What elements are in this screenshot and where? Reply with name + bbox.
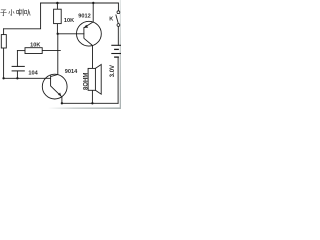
title 子小喇叭 (hand-drawn strokes) bbox=[0, 9, 30, 16]
wire R2 right lead bbox=[42, 50, 60, 52]
transistor Q1 9012 (PNP) bbox=[77, 21, 102, 46]
char 小 bbox=[9, 9, 14, 15]
wire right rail bottom to battery bbox=[117, 57, 119, 103]
transistor Q2 9014 (NPN) bbox=[42, 74, 67, 99]
wire R2 left lead bbox=[17, 50, 25, 52]
wire Q2 emitter down bbox=[61, 97, 63, 103]
resistor R2 bbox=[25, 48, 42, 54]
wire R1 top lead bbox=[3, 29, 5, 35]
wire N1 vertical down to Q2 collector bbox=[57, 34, 59, 75]
svg-text:9012: 9012 bbox=[78, 14, 90, 20]
char 子 bbox=[0, 10, 6, 16]
junction dot base rail left bbox=[2, 77, 4, 79]
resistor R3 bbox=[54, 9, 62, 23]
switch K bbox=[117, 11, 120, 27]
battery B1 3.0V bbox=[111, 45, 121, 57]
junction dot speaker at bottom rail bbox=[91, 102, 93, 104]
svg-text:10K: 10K bbox=[64, 18, 74, 24]
page shadow right edge bbox=[120, 0, 121, 109]
svg-text:10K: 10K bbox=[30, 42, 40, 48]
junction dot Q1 emitter at rail bbox=[92, 2, 94, 4]
wire speaker bottom lead bbox=[91, 90, 93, 103]
wire R1 bottom lead down to base rail bbox=[3, 48, 5, 78]
junction dot Q2 emitter at bottom rail bbox=[61, 102, 63, 104]
svg-text:104: 104 bbox=[28, 71, 38, 77]
junction dot R3 top at rail bbox=[56, 2, 59, 5]
wire R3 top lead bbox=[56, 3, 58, 9]
wire C1 bottom lead bbox=[16, 71, 18, 78]
svg-text:8OHM: 8OHM bbox=[84, 73, 90, 90]
junction dot N1 below R3 bbox=[57, 33, 59, 35]
wire Q1 collector down to speaker bbox=[91, 46, 93, 69]
wire node N1 to Q1 base bbox=[58, 33, 84, 35]
wire Q1 emitter to top rail bbox=[92, 3, 94, 22]
resistor R1 bbox=[1, 35, 6, 48]
speaker LS bbox=[88, 65, 101, 95]
transistor Q1 emitter arrow bbox=[84, 25, 88, 28]
transistor Q2 emitter arrow bbox=[58, 93, 61, 96]
wire bottom rail bbox=[62, 102, 118, 104]
svg-text:9014: 9014 bbox=[65, 69, 78, 75]
wire left drop from top rail bbox=[4, 3, 41, 29]
junction dot C1 bottom bbox=[16, 77, 18, 79]
page shadow bottom edge bbox=[48, 107, 121, 109]
wire top rail bbox=[41, 2, 119, 4]
switch K lever bbox=[116, 15, 119, 24]
capacitor C1 bbox=[12, 66, 25, 71]
char 喇 bbox=[17, 9, 24, 16]
svg-text:K: K bbox=[109, 17, 113, 23]
wire battery top to switch bbox=[117, 26, 119, 45]
svg-text:3.0V: 3.0V bbox=[110, 65, 116, 77]
wire C1 top lead bbox=[16, 51, 18, 67]
wire switch top to rail corner bbox=[117, 3, 119, 11]
wire R3 bottom lead bbox=[56, 24, 58, 34]
wire base rail to Q2 bbox=[4, 77, 51, 79]
char 叭 bbox=[25, 9, 31, 16]
